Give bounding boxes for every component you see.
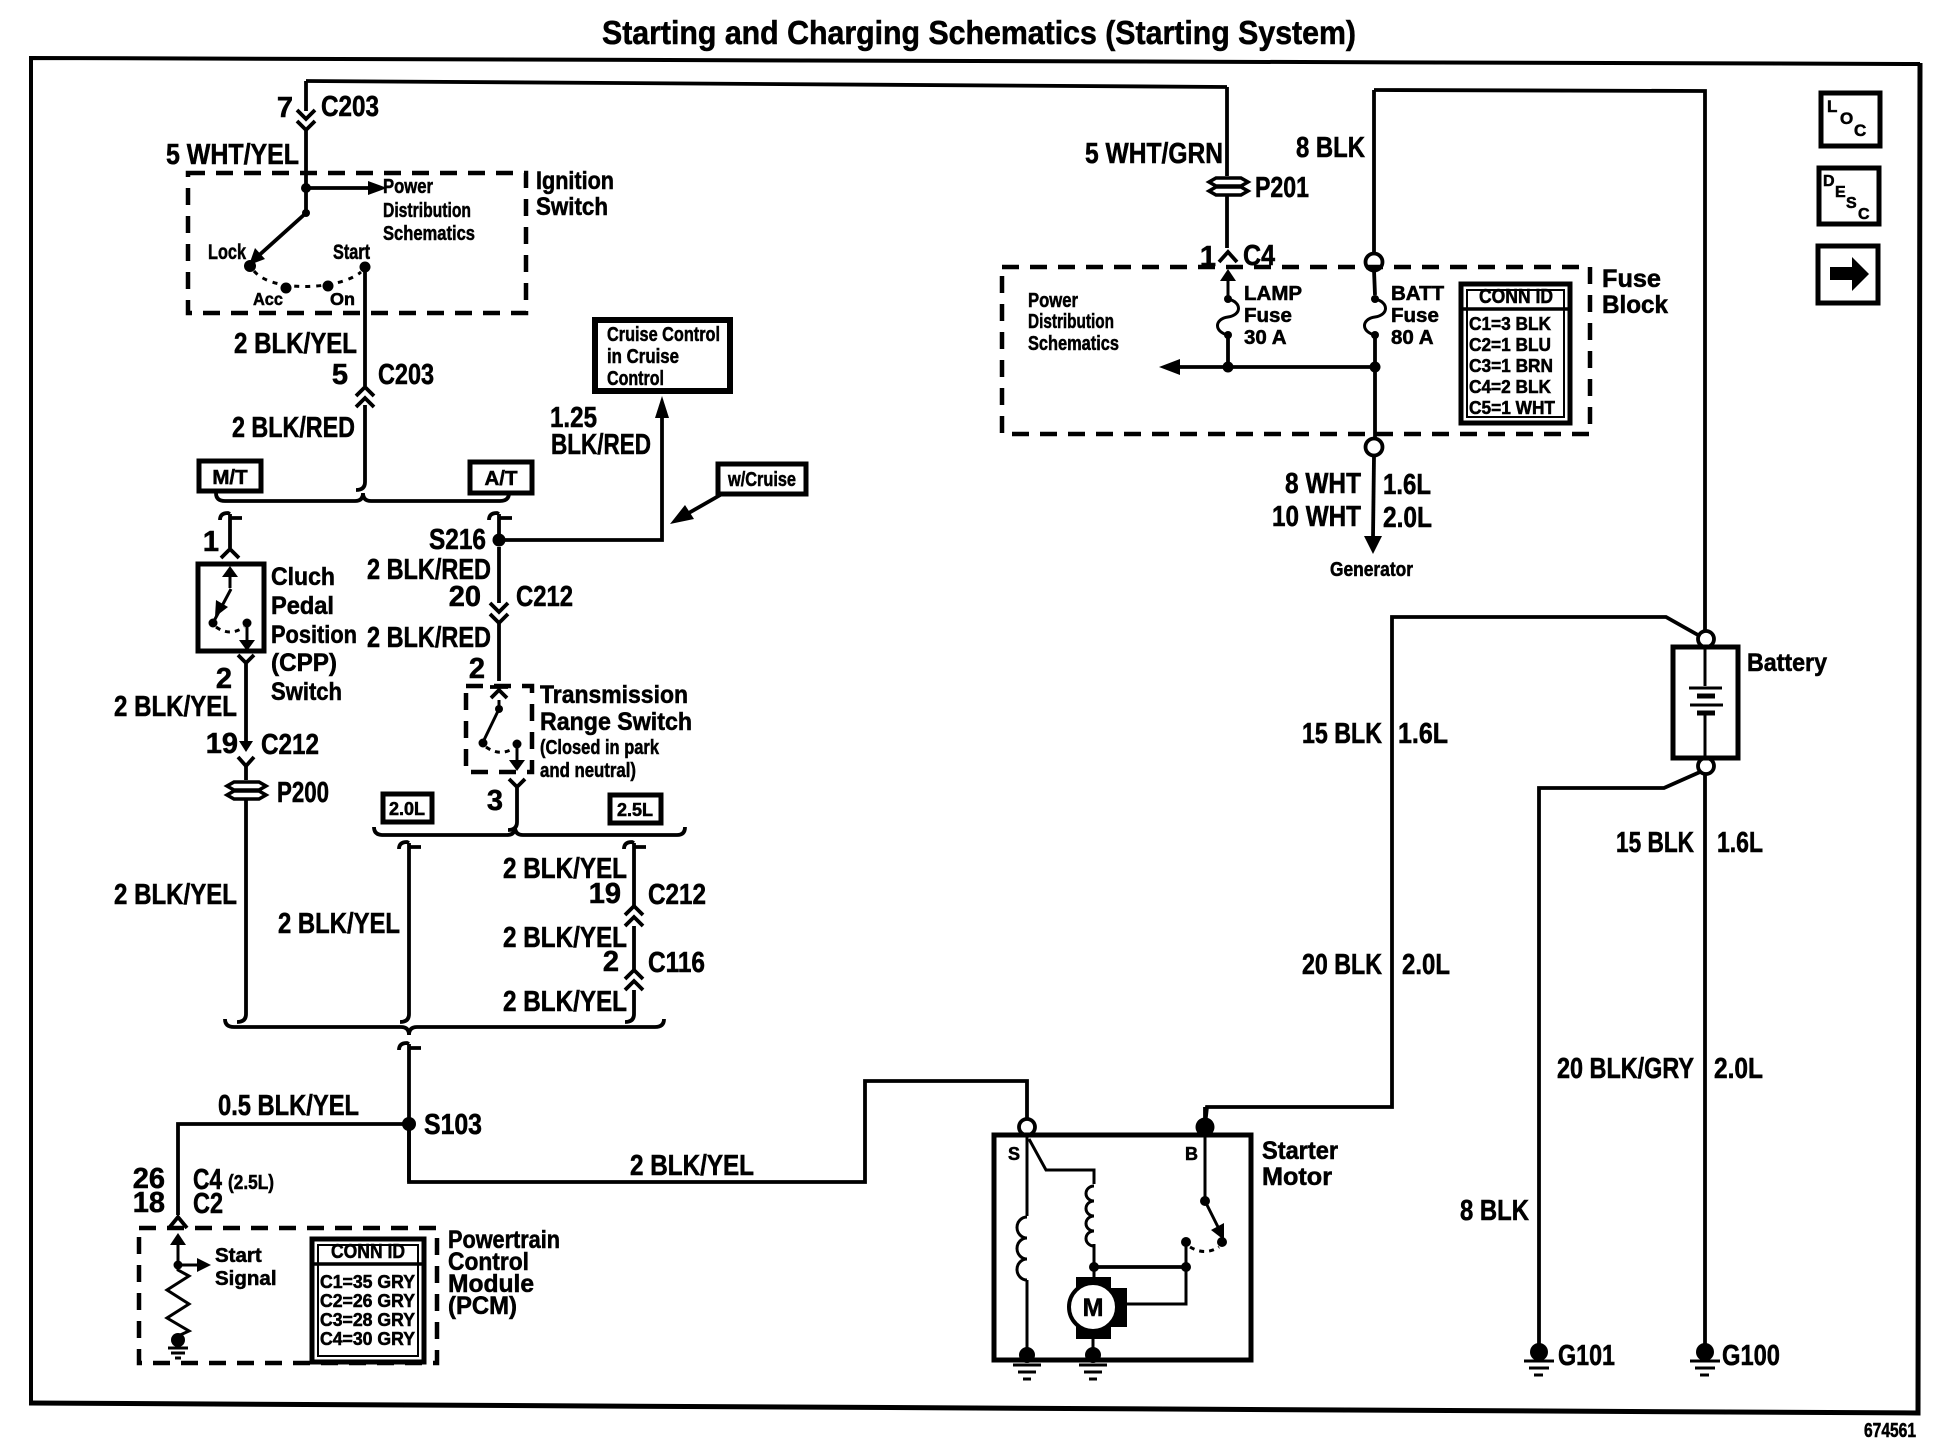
svg-text:Motor: Motor (1262, 1163, 1332, 1191)
connector 5 C203 (356, 387, 374, 407)
svg-text:1.6L: 1.6L (1383, 469, 1431, 501)
svg-text:2 BLK/YEL: 2 BLK/YEL (114, 879, 237, 911)
splice S216 (493, 534, 506, 547)
battery (1673, 647, 1738, 758)
A/T tag box (470, 462, 532, 493)
svg-text:D: D (1823, 173, 1835, 190)
svg-text:G101: G101 (1558, 1340, 1615, 1372)
CPP switch contacts and arm (229, 573, 232, 588)
2.5L wire upper (632, 843, 636, 906)
svg-text:80 A: 80 A (1391, 326, 1434, 349)
svg-text:19: 19 (206, 728, 238, 760)
contact Acc (281, 283, 292, 294)
svg-text:A/T: A/T (484, 467, 518, 490)
LAMP fuse 30 A (1224, 295, 1232, 303)
svg-text:and neutral): and neutral) (540, 759, 636, 782)
svg-text:30 A: 30 A (1244, 326, 1287, 349)
svg-text:C2=1 BLU: C2=1 BLU (1469, 335, 1551, 355)
connector 19 C212 (2.5L) (625, 906, 643, 926)
motor ground wire (1092, 1331, 1095, 1352)
terminal at fuse block bottom (1366, 439, 1383, 456)
svg-text:Distribution: Distribution (1028, 310, 1114, 333)
svg-text:2 BLK/RED: 2 BLK/RED (367, 622, 491, 654)
ground at motor (1085, 1347, 1101, 1363)
svg-text:C116: C116 (648, 947, 705, 979)
svg-text:Schematics: Schematics (383, 222, 475, 245)
svg-text:5 WHT/YEL: 5 WHT/YEL (166, 139, 299, 171)
svg-text:2.0L: 2.0L (1402, 949, 1450, 981)
svg-text:E: E (1835, 184, 1846, 201)
wire S103 to PCM (178, 1124, 409, 1215)
svg-text:1.6L: 1.6L (1717, 827, 1763, 859)
connector 1 C4 (1219, 252, 1237, 262)
svg-text:Fuse: Fuse (1244, 304, 1292, 327)
svg-text:1.6L: 1.6L (1398, 718, 1448, 750)
wire to CPP switch (228, 514, 232, 548)
node: ignition feed junction (301, 183, 311, 193)
svg-text:2: 2 (603, 946, 619, 978)
engine split brace (374, 827, 685, 835)
wire S216 to cruise control (499, 408, 662, 540)
Powertrain Control Module (PCM) box (139, 1228, 437, 1363)
svg-text:Range Switch: Range Switch (540, 708, 692, 736)
svg-text:CONN ID: CONN ID (1479, 285, 1553, 308)
svg-text:Control: Control (607, 367, 664, 390)
svg-text:G100: G100 (1722, 1340, 1780, 1372)
CPP pin 2 connector (238, 655, 254, 669)
connector 18 C2 (169, 1217, 187, 1228)
ground G101 (1530, 1343, 1548, 1361)
arrow to Power Distribution Schematics (306, 186, 371, 190)
wire battery negative down to G100 (1703, 774, 1707, 1348)
svg-text:Starter: Starter (1262, 1137, 1338, 1165)
Cruise Control callout box (595, 320, 730, 391)
BATT fuse 80 A (1374, 270, 1375, 295)
svg-text:20: 20 (449, 581, 481, 613)
grommet P200 (244, 766, 248, 780)
svg-text:3: 3 (487, 785, 503, 817)
svg-text:(PCM): (PCM) (448, 1292, 517, 1320)
wire CPP to P200 (244, 669, 248, 728)
svg-text:8 BLK: 8 BLK (1460, 1195, 1529, 1227)
svg-text:C4=2 BLK: C4=2 BLK (1469, 377, 1551, 397)
svg-text:C2: C2 (193, 1188, 223, 1220)
svg-text:C: C (1854, 121, 1866, 140)
2.5L wire lower (632, 990, 636, 1014)
svg-text:C1=35 GRY: C1=35 GRY (320, 1272, 415, 1292)
wire down to P201 (1225, 87, 1229, 176)
PCM start signal arrow up (177, 1241, 180, 1263)
svg-text:15 BLK: 15 BLK (1302, 718, 1382, 750)
TRS pin 2 connector (490, 687, 508, 698)
svg-text:w/Cruise: w/Cruise (727, 468, 796, 491)
TRS pin 3 connector (509, 779, 525, 794)
arrow from w/Cruise to wire (687, 494, 722, 514)
connector 20 C212 (490, 603, 508, 623)
svg-text:C3=28 GRY: C3=28 GRY (320, 1310, 415, 1330)
harness split brace (216, 493, 509, 501)
wire to motor armature (1093, 1267, 1096, 1280)
next-page arrow box (1818, 246, 1878, 303)
contact On (323, 281, 334, 292)
svg-text:2.0L: 2.0L (389, 799, 425, 819)
grommet P201 (1209, 178, 1248, 186)
M/T branch start (220, 513, 242, 520)
svg-text:C203: C203 (378, 359, 434, 391)
svg-text:B: B (1185, 1144, 1198, 1164)
2.5L branch start (624, 842, 646, 849)
svg-text:2.0L: 2.0L (1383, 502, 1432, 534)
svg-text:2 BLK/YEL: 2 BLK/YEL (503, 986, 627, 1018)
node at LAMP fuse output (1223, 362, 1234, 373)
contact Lock (244, 260, 256, 272)
ignition switch box (188, 173, 526, 313)
svg-text:Position: Position (271, 621, 357, 649)
solenoid contact switch (1204, 1136, 1207, 1199)
svg-text:Generator: Generator (1330, 558, 1413, 581)
svg-text:2 BLK/RED: 2 BLK/RED (232, 412, 355, 444)
svg-text:C203: C203 (321, 91, 379, 123)
svg-text:Power: Power (383, 175, 433, 198)
svg-text:Lock: Lock (208, 241, 246, 264)
ground (168, 1348, 188, 1358)
svg-text:Block: Block (1602, 291, 1668, 319)
CONN ID table (fuse block) (1461, 284, 1570, 423)
wire to M/T A/T split (363, 405, 367, 482)
ground at solenoid (1019, 1347, 1035, 1363)
svg-text:O: O (1840, 109, 1853, 128)
motor M armature (1076, 1277, 1111, 1291)
svg-text:Acc: Acc (253, 289, 283, 309)
2.0L branch start (399, 842, 421, 849)
wire (304, 128, 308, 188)
svg-text:Starting and Charging Schemati: Starting and Charging Schematics (Starti… (602, 14, 1356, 51)
wire from Start down (363, 271, 367, 386)
svg-text:2.5L: 2.5L (617, 800, 653, 820)
resistor (start signal pull-down) (167, 1265, 189, 1336)
wire battery to 15 BLK run (1205, 617, 1698, 1125)
wire 8 BLK from top (1372, 90, 1376, 254)
svg-text:Cluch: Cluch (271, 563, 335, 591)
svg-text:in Cruise: in Cruise (607, 345, 679, 368)
wire P200 down to merge (244, 800, 248, 1014)
2.0L ground wire (407, 843, 411, 1014)
svg-text:Pedal: Pedal (271, 592, 334, 620)
connector 19 C212 (244, 728, 248, 744)
terminal B (1196, 1118, 1215, 1137)
svg-text:C2=26 GRY: C2=26 GRY (320, 1291, 415, 1311)
C4 entry arrow inside fuse block (1227, 278, 1230, 296)
svg-text:19: 19 (589, 878, 621, 910)
wire S103 to starter motor (409, 1081, 1027, 1182)
svg-text:C: C (1858, 206, 1870, 223)
Transmission Range Switch box (466, 686, 532, 772)
wire from top to ignition switch (306, 81, 1227, 87)
ignition switch arm (304, 188, 308, 212)
svg-text:P200: P200 (277, 777, 329, 809)
solenoid hold-in winding (1029, 1139, 1094, 1184)
svg-text:Fuse: Fuse (1391, 304, 1439, 327)
merged wire start (399, 1043, 421, 1050)
M/T tag box (199, 461, 261, 491)
wire top feed to battery (1374, 90, 1705, 631)
svg-text:C5=1 WHT: C5=1 WHT (1469, 398, 1555, 418)
svg-text:7: 7 (277, 92, 293, 124)
svg-text:2 BLK/YEL: 2 BLK/YEL (234, 328, 357, 360)
svg-text:M/T: M/T (212, 466, 248, 489)
svg-text:674561: 674561 (1864, 1420, 1916, 1442)
node start signal (174, 1261, 183, 1270)
wire to generator (1373, 456, 1374, 538)
svg-text:2 BLK/YEL: 2 BLK/YEL (278, 908, 400, 940)
svg-text:(CPP): (CPP) (271, 649, 337, 677)
svg-text:Battery: Battery (1747, 649, 1827, 677)
svg-text:M: M (1083, 1294, 1104, 1322)
svg-text:Start: Start (333, 241, 370, 264)
svg-text:10 WHT: 10 WHT (1272, 501, 1361, 533)
Starter Motor box (994, 1135, 1251, 1360)
svg-text:S: S (1008, 1144, 1020, 1164)
svg-text:BLK/RED: BLK/RED (551, 429, 651, 461)
svg-text:2.0L: 2.0L (1714, 1053, 1763, 1085)
svg-text:Ignition: Ignition (536, 167, 614, 195)
A/T branch start (489, 513, 512, 520)
svg-text:2 BLK/YEL: 2 BLK/YEL (630, 1150, 754, 1182)
svg-text:20 BLK: 20 BLK (1302, 949, 1382, 981)
2.5L tag box (610, 795, 661, 823)
2.5L wire middle (632, 926, 636, 970)
svg-text:18: 18 (133, 1187, 165, 1219)
Clutch Pedal Position (CPP) Switch box (198, 564, 264, 651)
svg-text:5: 5 (332, 359, 348, 391)
svg-text:L: L (1827, 97, 1837, 116)
svg-text:S: S (1846, 195, 1857, 212)
terminal S (1019, 1119, 1035, 1135)
splice S103 (402, 1117, 416, 1131)
svg-text:C3=1 BRN: C3=1 BRN (1469, 356, 1553, 376)
LOC index box (1821, 93, 1880, 146)
Fuse Block box (1002, 267, 1590, 434)
svg-text:1: 1 (203, 526, 219, 558)
2.0L tag box (383, 794, 432, 822)
terminal at fuse block top (1366, 254, 1383, 271)
node field junction (1089, 1262, 1099, 1272)
wire battery negative branch to G101 (1539, 772, 1700, 1348)
svg-text:0.5 BLK/YEL: 0.5 BLK/YEL (218, 1090, 359, 1122)
svg-text:Fuse: Fuse (1602, 265, 1661, 293)
connector 7 C203 (297, 110, 315, 130)
svg-text:LAMP: LAMP (1244, 282, 1302, 305)
svg-text:Start: Start (215, 1244, 262, 1267)
wire to engine split (515, 794, 519, 822)
svg-text:(Closed in park: (Closed in park (540, 736, 659, 759)
svg-text:Transmission: Transmission (540, 681, 688, 709)
svg-text:On: On (330, 289, 355, 309)
svg-text:S103: S103 (424, 1109, 482, 1141)
TRS switch (498, 700, 501, 707)
svg-text:C4=30 GRY: C4=30 GRY (320, 1329, 415, 1349)
svg-text:Switch: Switch (536, 193, 608, 221)
svg-text:2 BLK/YEL: 2 BLK/YEL (114, 691, 237, 723)
svg-text:8 BLK: 8 BLK (1296, 132, 1365, 164)
connector 2 C116 (625, 970, 643, 990)
svg-text:C1=3 BLK: C1=3 BLK (1469, 314, 1551, 334)
svg-text:Power: Power (1028, 289, 1078, 312)
w/Cruise tag box (718, 464, 806, 494)
svg-text:Switch: Switch (271, 678, 342, 706)
svg-text:CONN ID: CONN ID (331, 1240, 405, 1263)
svg-text:(2.5L): (2.5L) (228, 1171, 274, 1194)
svg-text:C212: C212 (648, 879, 706, 911)
DESC index box (1819, 168, 1879, 224)
solenoid pull-in winding (1026, 1135, 1029, 1216)
arrow to power distribution (1178, 365, 1375, 369)
battery negative terminal (1698, 758, 1714, 774)
dashed detent arc (254, 271, 361, 287)
svg-text:Cruise Control: Cruise Control (607, 323, 720, 346)
svg-text:2: 2 (469, 653, 485, 685)
svg-text:C212: C212 (516, 581, 573, 613)
wire P201 to fuse block (1225, 196, 1229, 248)
svg-text:S216: S216 (429, 524, 486, 556)
wire 20 BLK to B terminal (1203, 1107, 1207, 1127)
svg-text:15 BLK: 15 BLK (1616, 827, 1694, 859)
svg-text:P201: P201 (1255, 172, 1309, 204)
svg-text:Distribution: Distribution (383, 199, 471, 222)
wire to S103 (407, 1044, 411, 1182)
wire S216 down (497, 547, 501, 603)
svg-text:20 BLK/GRY: 20 BLK/GRY (1557, 1053, 1694, 1085)
ground G100 (1696, 1343, 1714, 1361)
CONN ID table (PCM) (312, 1239, 424, 1362)
svg-text:5 WHT/GRN: 5 WHT/GRN (1085, 138, 1223, 170)
node at BATT fuse output (1370, 362, 1381, 373)
harness merge brace (225, 1019, 664, 1035)
svg-text:8 WHT: 8 WHT (1285, 468, 1361, 500)
ground node (171, 1333, 185, 1347)
battery positive terminal (1698, 631, 1714, 647)
svg-text:Schematics: Schematics (1028, 332, 1119, 355)
contact Start (360, 262, 371, 273)
wire to transmission range switch (497, 623, 501, 681)
svg-text:BATT: BATT (1391, 282, 1445, 305)
svg-text:Signal: Signal (215, 1267, 277, 1290)
svg-text:C212: C212 (261, 729, 319, 761)
